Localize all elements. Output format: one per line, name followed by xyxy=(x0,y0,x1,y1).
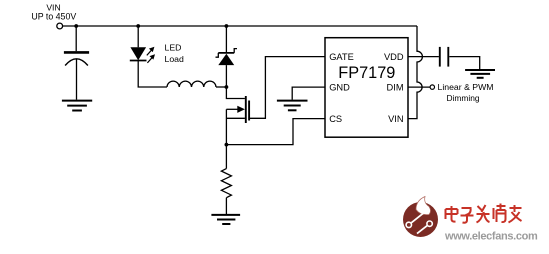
capacitor C1 input electrolytic xyxy=(64,52,89,65)
svg-text:CS: CS xyxy=(329,114,342,124)
svg-text:GND: GND xyxy=(329,82,350,92)
svg-text:Load: Load xyxy=(165,54,184,64)
svg-text:DIM: DIM xyxy=(387,82,404,92)
wire from capacitor C1 to ground xyxy=(76,59,78,100)
wire sense node to CS pin xyxy=(226,119,325,145)
node junction dot at CS sense node xyxy=(225,143,229,147)
resistor R1 current sense xyxy=(221,169,231,198)
wire DIM pin to dimming terminal xyxy=(408,86,430,88)
node VIN input terminal xyxy=(57,23,63,29)
wire resistor R1 to ground xyxy=(225,198,227,214)
diode D2 schottky freewheeling xyxy=(216,49,238,66)
inductor L1 xyxy=(167,81,216,87)
wire diode anode to switch node xyxy=(225,65,227,87)
svg-text:Linear & PWM: Linear & PWM xyxy=(438,82,494,92)
node DIM open terminal xyxy=(430,85,434,89)
svg-text:GATE: GATE xyxy=(329,52,354,62)
transistor Q1 MOSFET xyxy=(226,96,249,123)
node junction dot at switch node xyxy=(225,85,229,89)
node junction dot at LED branch xyxy=(136,24,140,28)
wire MOSFET gate to GATE pin xyxy=(250,57,325,119)
svg-text:LED: LED xyxy=(165,43,182,53)
wire from LED down and right to inductor xyxy=(138,61,167,88)
node junction dot at input capacitor branch xyxy=(74,24,78,28)
ground at C2 xyxy=(465,70,495,78)
ground below R1 xyxy=(211,215,240,224)
svg-text:UP to 450V: UP to 450V xyxy=(31,12,76,22)
watermark elecfans logo disc xyxy=(403,197,438,238)
wire switch node to MOSFET drain xyxy=(226,87,245,99)
wire sense node down to resistor R1 xyxy=(225,145,227,169)
capacitor C2 VDD bypass xyxy=(440,47,449,67)
wire MOSFET source/body down to sense node xyxy=(225,109,227,144)
wire from inductor to switch node xyxy=(216,86,226,88)
LED D1 xyxy=(130,47,155,63)
svg-text:Dimming: Dimming xyxy=(446,93,479,103)
wire from rail down to input capacitor xyxy=(75,26,77,51)
svg-text:VDD: VDD xyxy=(384,52,404,62)
wire top VIN rail xyxy=(63,25,417,27)
node junction dot at diode branch xyxy=(225,24,229,28)
svg-text:VIN: VIN xyxy=(388,114,404,124)
ground at GND pin xyxy=(277,101,308,111)
op-amp U1 FP7179 controller box xyxy=(325,38,408,138)
svg-text:FP7179: FP7179 xyxy=(338,64,395,82)
svg-text:www.elecfans.com: www.elecfans.com xyxy=(444,230,538,242)
wire from rail down to diode D2 xyxy=(225,26,227,52)
watermark chinese text dianzi fashaoyou xyxy=(446,204,522,223)
wire VIN rail from top rail to VIN pin with crossover hops xyxy=(408,26,422,119)
wire VDD pin to capacitor C2 xyxy=(408,56,439,58)
ground below C1 xyxy=(62,101,92,111)
wire GND pin to ground xyxy=(292,87,325,100)
wire capacitor C2 to ground xyxy=(449,57,479,69)
wire from rail down to LED xyxy=(137,26,139,47)
